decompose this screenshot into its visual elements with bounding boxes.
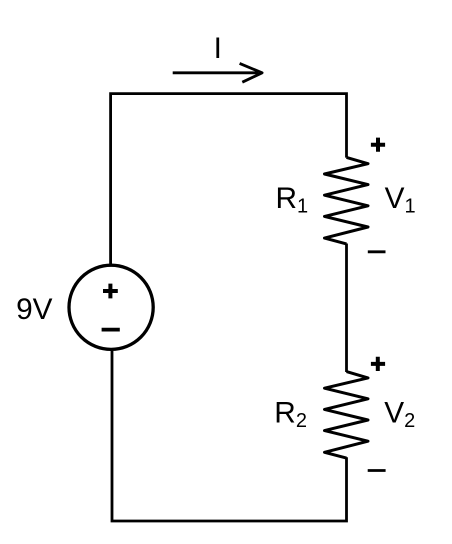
wire top	[111, 94, 347, 265]
resistor R2	[325, 372, 369, 459]
polarity - of V1	[368, 250, 386, 253]
wire bottom	[112, 351, 347, 521]
wire between R1 and R2	[345, 244, 348, 373]
svg-text:9V: 9V	[16, 293, 53, 326]
svg-text:I: I	[214, 32, 222, 65]
current arrow	[173, 63, 262, 82]
resistor R1	[325, 157, 369, 244]
polarity + of V2	[371, 357, 385, 371]
voltage source - mark	[102, 328, 120, 332]
polarity - of V2	[368, 469, 386, 472]
voltage source + mark	[103, 284, 118, 299]
polarity + of V1	[371, 138, 385, 152]
voltage source U1 circle	[69, 265, 153, 349]
